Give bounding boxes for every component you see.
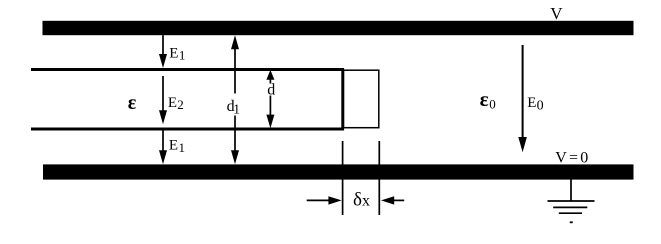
svg-text:2: 2 [177, 97, 184, 112]
svg-text:0: 0 [537, 99, 544, 114]
svg-text:E: E [169, 46, 178, 62]
svg-text:1: 1 [233, 101, 240, 116]
svg-text:E: E [168, 95, 177, 111]
svg-text:V=0: V=0 [555, 150, 590, 167]
svg-text:E: E [169, 137, 178, 153]
svg-text:E: E [527, 95, 536, 111]
svg-text:1: 1 [179, 140, 186, 155]
svg-text:V: V [550, 4, 563, 23]
svg-text:ε: ε [480, 87, 489, 111]
svg-text:d: d [267, 82, 275, 99]
svg-text:0: 0 [489, 96, 496, 111]
svg-text:1: 1 [179, 48, 186, 63]
svg-text:δx: δx [353, 190, 370, 211]
svg-text:ε: ε [128, 92, 137, 114]
